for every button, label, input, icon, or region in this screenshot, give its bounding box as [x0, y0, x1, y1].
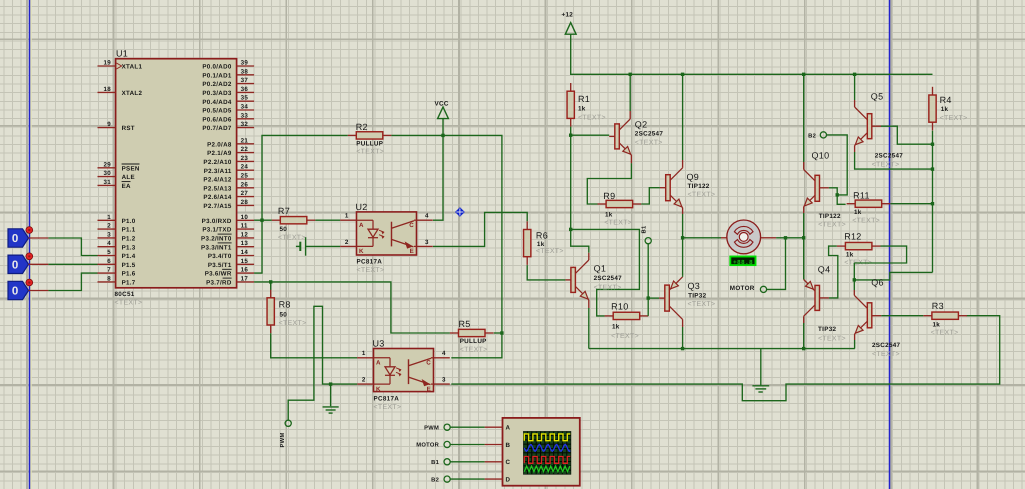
svg-text:P2.6/A14: P2.6/A14	[203, 194, 231, 201]
svg-text:<TEXT>: <TEXT>	[688, 301, 716, 308]
svg-text:11: 11	[241, 223, 248, 230]
svg-text:Q5: Q5	[871, 92, 884, 102]
svg-text:K: K	[376, 386, 381, 393]
svg-text:1k: 1k	[605, 211, 613, 218]
svg-text:P1.0: P1.0	[122, 218, 136, 225]
svg-text:24: 24	[241, 164, 249, 171]
svg-text:<TEXT>: <TEXT>	[818, 335, 846, 342]
svg-text:R8: R8	[279, 300, 291, 310]
svg-text:<TEXT>: <TEXT>	[594, 284, 622, 291]
svg-text:E: E	[427, 386, 431, 393]
svg-text:0: 0	[12, 260, 19, 272]
svg-text:31: 31	[104, 179, 112, 186]
svg-text:P0.5/AD5: P0.5/AD5	[202, 108, 231, 115]
svg-text:P0.7/AD7: P0.7/AD7	[202, 125, 231, 132]
svg-text:Q6: Q6	[871, 277, 884, 287]
svg-text:B1: B1	[431, 460, 439, 466]
svg-text:C: C	[409, 222, 414, 229]
svg-text:B2: B2	[431, 476, 439, 483]
svg-text:A: A	[506, 425, 511, 432]
svg-text:<TEXT>: <TEXT>	[374, 404, 402, 411]
svg-text:P1.1: P1.1	[122, 227, 136, 234]
svg-text:P0.1/AD1: P0.1/AD1	[202, 72, 231, 79]
svg-text:<TEXT>: <TEXT>	[356, 148, 384, 155]
svg-text:+88.8: +88.8	[733, 259, 753, 266]
svg-text:1k: 1k	[612, 324, 620, 331]
svg-text:2: 2	[345, 239, 349, 246]
svg-text:28: 28	[241, 199, 249, 206]
svg-text:<TEXT>: <TEXT>	[578, 114, 606, 121]
svg-text:26: 26	[241, 181, 249, 188]
svg-text:TIP32: TIP32	[818, 326, 836, 333]
svg-text:0: 0	[12, 286, 19, 298]
svg-text:P1.7: P1.7	[122, 280, 136, 287]
svg-text:TIP122: TIP122	[688, 183, 710, 190]
svg-text:<TEXT>: <TEXT>	[357, 267, 385, 274]
svg-text:Q9: Q9	[687, 172, 700, 182]
svg-text:5: 5	[107, 249, 111, 256]
svg-text:<TEXT>: <TEXT>	[611, 333, 639, 340]
svg-text:P3.7/RD: P3.7/RD	[206, 280, 232, 287]
svg-text:34: 34	[241, 104, 249, 111]
svg-text:P2.1/A9: P2.1/A9	[207, 150, 232, 157]
svg-text:3: 3	[107, 231, 111, 238]
svg-text:U2: U2	[356, 202, 368, 212]
svg-text:Q4: Q4	[818, 265, 831, 275]
svg-text:1k: 1k	[846, 252, 854, 259]
svg-text:Q3: Q3	[688, 281, 701, 291]
svg-text:1: 1	[107, 214, 111, 221]
svg-text:A: A	[359, 222, 364, 229]
svg-text:12: 12	[241, 231, 249, 238]
svg-text:22: 22	[241, 146, 249, 153]
svg-text:0: 0	[12, 233, 19, 245]
svg-text:14: 14	[241, 249, 249, 256]
svg-text:1k: 1k	[537, 241, 545, 248]
svg-text:2SC2547: 2SC2547	[635, 130, 664, 137]
svg-text:1k: 1k	[578, 106, 586, 113]
svg-text:R4: R4	[940, 95, 952, 105]
svg-text:23: 23	[241, 155, 249, 162]
svg-text:27: 27	[241, 190, 249, 197]
svg-text:PWM: PWM	[280, 432, 286, 447]
svg-text:2: 2	[107, 223, 111, 230]
svg-text:8: 8	[107, 275, 111, 282]
svg-text:17: 17	[241, 275, 249, 282]
svg-text:37: 37	[241, 77, 249, 84]
svg-text:P2.7/A15: P2.7/A15	[203, 203, 231, 210]
svg-text:16: 16	[241, 267, 249, 274]
svg-text:B2: B2	[808, 132, 816, 139]
svg-text:13: 13	[241, 240, 249, 247]
svg-text:P3.1/TXD: P3.1/TXD	[202, 227, 231, 234]
svg-text:P0.2/AD2: P0.2/AD2	[202, 81, 231, 88]
svg-text:XTAL1: XTAL1	[122, 64, 143, 71]
svg-text:30: 30	[104, 170, 112, 177]
svg-text:36: 36	[241, 86, 249, 93]
svg-text:P0.0/AD0: P0.0/AD0	[202, 64, 231, 71]
svg-text:R11: R11	[853, 190, 870, 200]
svg-text:9: 9	[107, 121, 111, 128]
svg-text:P1.3: P1.3	[122, 244, 136, 251]
svg-text:E: E	[410, 248, 414, 255]
svg-text:P2.2/A10: P2.2/A10	[203, 159, 231, 166]
svg-text:P2.0/A8: P2.0/A8	[207, 141, 232, 148]
svg-text:ALE: ALE	[122, 174, 135, 181]
svg-text:C: C	[506, 459, 511, 466]
svg-text:MOTOR: MOTOR	[730, 285, 755, 292]
svg-text:P1.4: P1.4	[122, 253, 136, 260]
svg-text:<TEXT>: <TEXT>	[872, 351, 900, 358]
svg-text:7: 7	[107, 267, 111, 274]
svg-text:PWM: PWM	[424, 425, 439, 431]
svg-text:35: 35	[241, 95, 249, 102]
svg-text:PC817A: PC817A	[357, 259, 383, 266]
svg-text:PSEN: PSEN	[122, 165, 140, 172]
svg-text:10: 10	[241, 214, 249, 221]
svg-text:RST: RST	[122, 125, 135, 132]
svg-text:21: 21	[241, 137, 249, 144]
svg-text:B1: B1	[641, 225, 647, 233]
svg-text:<TEXT>: <TEXT>	[688, 192, 716, 199]
svg-text:<TEXT>: <TEXT>	[872, 162, 900, 169]
svg-text:+12: +12	[562, 12, 574, 19]
svg-text:Q1: Q1	[594, 264, 607, 274]
svg-text:33: 33	[241, 112, 249, 119]
svg-text:1k: 1k	[933, 321, 941, 328]
svg-text:<TEXT>: <TEXT>	[604, 220, 632, 227]
svg-text:<TEXT>: <TEXT>	[278, 235, 306, 242]
svg-text:PULLUP: PULLUP	[460, 338, 487, 345]
svg-text:U3: U3	[373, 339, 385, 349]
svg-text:VCC: VCC	[435, 100, 449, 107]
svg-text:R2: R2	[356, 122, 368, 132]
svg-text:6: 6	[107, 258, 111, 265]
svg-text:80C51: 80C51	[115, 291, 135, 298]
svg-text:1k: 1k	[854, 209, 862, 216]
svg-text:1: 1	[362, 350, 366, 357]
svg-text:P1.6: P1.6	[122, 271, 136, 278]
svg-text:<TEXT>: <TEXT>	[460, 347, 488, 354]
svg-text:<TEXT>: <TEXT>	[852, 218, 880, 225]
svg-text:50: 50	[280, 226, 288, 233]
svg-text:P2.4/A12: P2.4/A12	[203, 177, 231, 184]
svg-text:C: C	[426, 360, 431, 367]
svg-text:P0.6/AD6: P0.6/AD6	[202, 116, 231, 123]
svg-text:Q10: Q10	[812, 150, 830, 160]
svg-text:R7: R7	[278, 206, 290, 216]
svg-text:PULLUP: PULLUP	[356, 140, 383, 147]
svg-text:P3.3/INT1: P3.3/INT1	[201, 244, 232, 251]
svg-text:P3.5/T1: P3.5/T1	[208, 262, 232, 269]
svg-text:25: 25	[241, 173, 249, 180]
svg-text:U1: U1	[116, 49, 128, 59]
svg-text:P3.6/WR: P3.6/WR	[205, 271, 232, 278]
svg-text:29: 29	[104, 161, 112, 168]
svg-text:<TEXT>: <TEXT>	[279, 320, 307, 327]
svg-text:P1.5: P1.5	[122, 262, 136, 269]
svg-text:P3.0/RXD: P3.0/RXD	[202, 218, 232, 225]
svg-text:EA: EA	[122, 183, 131, 190]
svg-text:TIP32: TIP32	[688, 293, 706, 300]
svg-text:4: 4	[425, 213, 429, 220]
svg-text:R5: R5	[459, 319, 471, 329]
svg-text:2SC2547: 2SC2547	[872, 342, 901, 349]
svg-text:4: 4	[107, 240, 111, 247]
svg-text:50: 50	[280, 312, 288, 319]
svg-text:4: 4	[442, 350, 446, 357]
svg-text:P3.2/INT0: P3.2/INT0	[201, 236, 232, 243]
svg-text:18: 18	[104, 86, 112, 93]
svg-text:1: 1	[345, 213, 349, 220]
svg-text:XTAL2: XTAL2	[122, 90, 143, 97]
svg-text:3: 3	[442, 377, 446, 384]
svg-text:<TEXT>: <TEXT>	[818, 222, 846, 229]
svg-text:P1.2: P1.2	[122, 236, 136, 243]
svg-text:P0.4/AD4: P0.4/AD4	[202, 99, 231, 106]
svg-text:R1: R1	[578, 94, 590, 104]
svg-text:2SC2547: 2SC2547	[594, 275, 623, 282]
svg-text:Q2: Q2	[635, 120, 648, 130]
svg-text:K: K	[359, 248, 364, 255]
svg-text:R6: R6	[536, 231, 548, 241]
svg-text:R9: R9	[603, 191, 615, 201]
svg-text:P3.4/T0: P3.4/T0	[208, 253, 232, 260]
svg-text:<TEXT>: <TEXT>	[931, 330, 959, 337]
svg-text:38: 38	[241, 68, 249, 75]
svg-text:R12: R12	[844, 231, 861, 241]
svg-text:<TEXT>: <TEXT>	[536, 248, 564, 255]
svg-text:15: 15	[241, 258, 249, 265]
svg-text:TIP122: TIP122	[819, 213, 841, 220]
svg-text:39: 39	[241, 60, 249, 67]
svg-text:P2.5/A13: P2.5/A13	[203, 185, 231, 192]
svg-text:2SC2547: 2SC2547	[875, 153, 904, 160]
svg-text:3: 3	[425, 239, 429, 246]
svg-text:32: 32	[241, 121, 249, 128]
svg-text:P2.3/A11: P2.3/A11	[204, 168, 232, 175]
svg-text:1k: 1k	[941, 106, 949, 113]
svg-text:A: A	[376, 360, 381, 367]
svg-text:19: 19	[104, 60, 112, 67]
svg-text:D: D	[506, 477, 511, 484]
svg-text:<TEXT>: <TEXT>	[115, 300, 143, 307]
svg-text:<TEXT>: <TEXT>	[940, 115, 968, 122]
svg-text:R3: R3	[932, 301, 944, 311]
svg-text:PC817A: PC817A	[374, 395, 400, 402]
svg-text:R10: R10	[611, 302, 628, 312]
svg-text:2: 2	[362, 377, 366, 384]
svg-text:<TEXT>: <TEXT>	[635, 140, 663, 147]
svg-text:B: B	[506, 442, 511, 449]
svg-text:P0.3/AD3: P0.3/AD3	[202, 90, 231, 97]
svg-text:MOTOR: MOTOR	[416, 442, 439, 449]
